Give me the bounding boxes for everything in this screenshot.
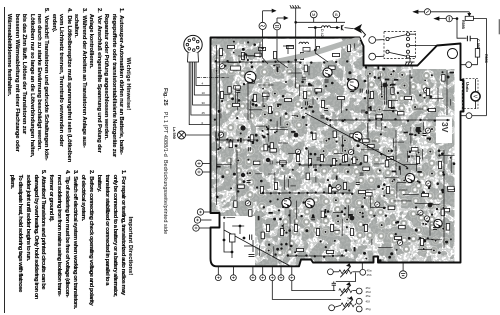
svg-text:30: 30 — [202, 101, 206, 105]
pot3 left node — [329, 305, 341, 311]
AC symbol node — [259, 22, 266, 29]
sense wire with node I — [435, 16, 467, 39]
battery terminal node — [399, 263, 407, 279]
transistor T7 — [305, 199, 314, 208]
svg-text:45f: 45f — [366, 299, 370, 303]
svg-text:45e: 45e — [366, 294, 371, 298]
transistor T8 — [434, 219, 442, 227]
transistor T6 — [282, 198, 291, 207]
ground return wire to switch pot — [272, 281, 341, 300]
pad rows — [215, 60, 449, 258]
wire tap labels — [202, 82, 206, 125]
node M3 wire to switch — [369, 53, 384, 60]
English notes block — [6, 170, 133, 315]
switch ground — [405, 59, 414, 65]
potentiometer switch pot — [341, 297, 354, 310]
lamp label La590 — [172, 127, 176, 139]
IF transformer cans and component clusters — [219, 45, 441, 254]
supply node wire A — [259, 9, 276, 37]
interconnect wires (unlabeled) — [216, 43, 455, 258]
page edge wire stub — [498, 19, 500, 34]
circuit board outline PL1 — [211, 38, 464, 267]
svg-text:M: M — [312, 12, 315, 17]
car antenna symbol — [354, 25, 365, 37]
resistor R596 — [475, 49, 479, 58]
potentiometer tone — [339, 283, 352, 297]
pot input node P — [328, 269, 339, 275]
electrolytic capacitors — [240, 83, 432, 221]
top strip line art — [231, 39, 329, 88]
pot2 node — [352, 288, 362, 294]
mounting hole — [448, 49, 458, 59]
resistor label R596 — [484, 54, 488, 63]
capacitors block (unlabeled) — [216, 65, 454, 251]
switch to board corner wire — [416, 44, 437, 46]
test point markers (unlabeled) — [218, 64, 431, 246]
resistors (unlabeled) — [228, 53, 455, 239]
node M2 wire to switch — [369, 37, 384, 44]
alignment dash-dot line — [197, 77, 229, 79]
wire pot1 to node — [352, 263, 365, 276]
choke label D425 — [320, 29, 324, 39]
transistor T5 — [405, 173, 414, 182]
chassis ground — [290, 5, 301, 37]
voltmeter label U ratio — [465, 82, 470, 92]
figure caption — [162, 88, 168, 234]
svg-text:45: 45 — [202, 111, 206, 115]
pot1 tap wire with C540 — [332, 273, 356, 292]
capacitor label C595 — [476, 39, 480, 49]
bottom terminal strip — [215, 267, 294, 281]
svg-text:B: B — [335, 12, 338, 17]
wide diagonal trace band — [262, 40, 360, 64]
connector socket Bu1 — [184, 35, 202, 62]
solder pad rings — [213, 39, 450, 257]
wire C595 to R596 — [470, 39, 477, 49]
feed wire to R595 — [414, 9, 471, 17]
transistor T2 — [323, 68, 332, 77]
wire lamp to board — [186, 134, 211, 136]
potentiometer volume — [339, 264, 352, 277]
RF input components row — [219, 49, 222, 56]
battery voltage label 3V — [440, 122, 450, 132]
terminal circles left edge — [193, 160, 212, 231]
bus wire with M and B nodes — [295, 11, 345, 23]
terminal code labels — [366, 268, 372, 311]
DC symbol node — [273, 23, 280, 30]
lamp La590 — [178, 131, 211, 139]
socket harness wires — [189, 62, 210, 125]
German notes block — [4, 8, 131, 160]
capacitor C595 — [467, 36, 470, 41]
arrow — [263, 10, 276, 12]
svg-text:45g: 45g — [366, 307, 371, 311]
svg-text:10: 10 — [202, 91, 206, 95]
transistor T4 — [353, 132, 362, 141]
lower sense terminal — [461, 113, 486, 119]
transistor T3 — [347, 79, 358, 90]
supply node wire B — [273, 17, 287, 38]
pot3 right nodes — [355, 298, 362, 312]
printed circuit copper traces texture — [205, 32, 465, 272]
svg-text:45b: 45b — [367, 273, 372, 277]
battery minus wire — [292, 281, 335, 291]
ceramic capacitors (unlabeled) — [236, 65, 437, 230]
junction node below R596 — [461, 57, 478, 68]
bottom left diagonal wire — [224, 230, 290, 266]
mechanical coupling dashes — [347, 284, 349, 302]
AF section detail drawing — [223, 222, 255, 258]
switch S1 (dashed enclosure) — [384, 32, 416, 59]
transistor T1 — [245, 71, 256, 82]
solder pads — [214, 41, 456, 263]
wire R595 to right rail — [473, 19, 486, 116]
resistor label R595 — [461, 20, 465, 29]
dial cord diagonal — [305, 113, 407, 167]
resistor R595 — [465, 16, 473, 20]
voltmeter U ratio — [462, 79, 480, 109]
svg-text:45a: 45a — [367, 268, 372, 272]
page fold rule — [4, 7, 5, 313]
antenna feed wire with choke D425 — [308, 25, 354, 38]
bus wires — [216, 42, 450, 256]
